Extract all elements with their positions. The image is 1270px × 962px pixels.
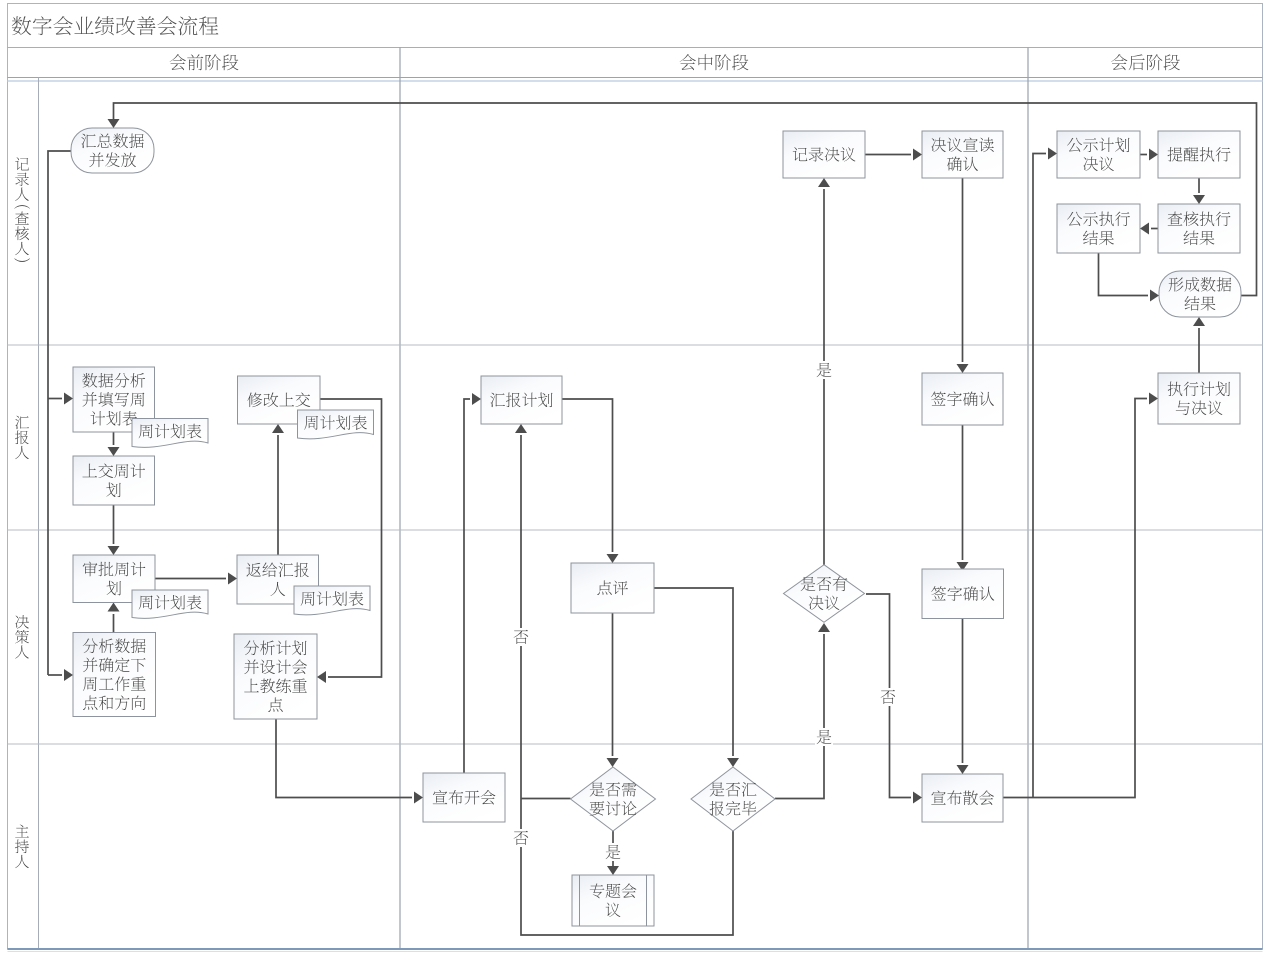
lane label 主持人 bbox=[15, 824, 29, 868]
process box 公示执行结果 bbox=[1057, 204, 1140, 253]
wire 是否汇报完毕 否 loop→汇报计划 bbox=[515, 424, 733, 935]
process box 返给汇报人 bbox=[237, 555, 319, 604]
process box 签字确认(决策人) bbox=[922, 569, 1004, 619]
document 周计划表 #3 bbox=[132, 590, 208, 618]
wire 点评→是否需要讨论 bbox=[607, 613, 619, 767]
process box 执行计划与决议 bbox=[1158, 373, 1240, 424]
process box 决议宣读确认 bbox=[922, 131, 1003, 178]
lane divider 记录人/汇报人 bbox=[8, 344, 1263, 346]
process box 宣布开会 bbox=[423, 773, 505, 822]
table bottom border bbox=[8, 949, 1263, 952]
wire 数据分析→上交周计划 bbox=[108, 432, 120, 456]
process box 审批周计划 bbox=[73, 555, 155, 603]
wire 决议宣读确认→签字确认(汇报人) bbox=[957, 178, 969, 373]
wire 宣布散会 branch→公示计划决议 bbox=[1033, 148, 1057, 798]
process box 上交周计划 bbox=[73, 456, 155, 505]
wire 审批周计划→返给汇报人 bbox=[155, 573, 237, 585]
lane label 决策人 bbox=[15, 615, 29, 659]
wire 汇总数据并发放→left rail down bbox=[48, 151, 71, 675]
document 周计划表 #4 bbox=[294, 586, 370, 615]
header row bottom border bbox=[8, 78, 1263, 82]
process box 点评 bbox=[571, 563, 654, 613]
process box 公示计划决议 bbox=[1057, 131, 1140, 178]
process box 分析数据并确定下周工作重点和方向 bbox=[73, 633, 156, 717]
process box 修改上交 bbox=[238, 376, 321, 424]
wire 是否有决议→记录决议 (是) bbox=[818, 178, 830, 565]
process box 签字确认(汇报人) bbox=[922, 373, 1003, 425]
document 周计划表 #2 bbox=[298, 410, 374, 439]
decision diamond 是否需要讨论 bbox=[571, 767, 656, 831]
title 数字会业绩改善会流程 bbox=[12, 16, 219, 35]
lane divider 汇报人/决策人 bbox=[8, 529, 1263, 531]
wire 是否需要讨论 否→merge rail bbox=[521, 798, 571, 800]
process box 汇报计划 bbox=[481, 376, 562, 424]
document 周计划表 #1 bbox=[132, 419, 208, 448]
predefined process 专题会议 bbox=[572, 875, 654, 926]
label 否 (merge rail lower) bbox=[512, 829, 530, 847]
wire 是否汇报完毕→是否有决议 (是) bbox=[775, 623, 830, 799]
wire rail→分析数据并确定下周工作重点和方向 bbox=[48, 669, 73, 681]
wire 返给汇报人→修改上交 bbox=[272, 424, 284, 555]
wire 公示计划决议→提醒执行 bbox=[1140, 149, 1158, 161]
lane label 汇报人 bbox=[15, 416, 29, 459]
label 否 (merge rail upper) bbox=[512, 628, 530, 646]
header 会前阶段 bbox=[170, 54, 239, 70]
decision diamond 是否汇报完毕 bbox=[691, 767, 775, 831]
title row bottom border bbox=[8, 47, 1263, 49]
label 是 (是否有决议→记录决议) bbox=[815, 361, 833, 379]
wire 修改上交→分析计划并设计会上教练重点 bbox=[317, 399, 382, 683]
start node 汇总数据并发放 bbox=[71, 128, 154, 173]
label 否 (是否有决议→宣布散会) bbox=[879, 688, 897, 706]
header 会后阶段 bbox=[1111, 54, 1180, 70]
process box 数据分析并填写周计划表 bbox=[73, 367, 155, 432]
wire 是否需要讨论→专题会议 (是) bbox=[607, 831, 619, 875]
wire 签字确认(汇报人)→签字确认(决策人) bbox=[957, 425, 969, 571]
wire 形成数据结果→汇总数据并发放 feedback loop bbox=[108, 103, 1257, 296]
column separator 会中/会后 bbox=[1027, 48, 1029, 950]
process box 分析计划并设计会上教练重点 bbox=[234, 634, 317, 719]
wire 宣布散会→执行计划与决议 bbox=[1003, 393, 1158, 798]
wire 汇报计划→点评 bbox=[562, 399, 619, 563]
wire 分析数据→审批周计划 bbox=[108, 603, 120, 633]
wire 分析计划→宣布开会 bbox=[276, 719, 423, 804]
wire 是否有决议 否→宣布散会 bbox=[866, 594, 922, 804]
wire 执行计划与决议→形成数据结果 bbox=[1193, 317, 1205, 373]
wire 签字确认(决策人)→宣布散会 bbox=[957, 617, 969, 774]
end node 形成数据结果 bbox=[1159, 271, 1241, 317]
decision diamond 是否有决议 bbox=[784, 565, 865, 623]
wire 查核执行结果→公示执行结果 bbox=[1140, 223, 1158, 235]
wire 公示执行结果→形成数据结果 bbox=[1099, 253, 1160, 302]
wire 提醒执行→查核执行结果 bbox=[1193, 178, 1205, 204]
wire 宣布开会→汇报计划 bbox=[464, 393, 481, 773]
process box 查核执行结果 bbox=[1158, 204, 1240, 253]
lane label 记录人(查核人) bbox=[14, 157, 30, 262]
lane divider 决策人/主持人 bbox=[8, 743, 1263, 745]
label 是 (是否需要讨论→专题会议) bbox=[604, 843, 622, 861]
header 会中阶段 bbox=[680, 54, 749, 70]
wire rail→数据分析并填写周计划表 bbox=[48, 393, 73, 405]
wire 点评→是否汇报完毕 bbox=[654, 588, 739, 767]
process box 宣布散会 bbox=[922, 774, 1003, 822]
label 是 (是否汇报完毕→是否有决议) bbox=[815, 728, 833, 746]
process box 提醒执行 bbox=[1158, 131, 1240, 178]
lane label column separator bbox=[38, 78, 40, 950]
wire 记录决议→决议宣读确认 bbox=[865, 149, 922, 161]
column separator 会前/会中 bbox=[399, 48, 401, 950]
wire 上交周计划→审批周计划 bbox=[108, 505, 120, 555]
process box 记录决议 bbox=[783, 131, 865, 178]
